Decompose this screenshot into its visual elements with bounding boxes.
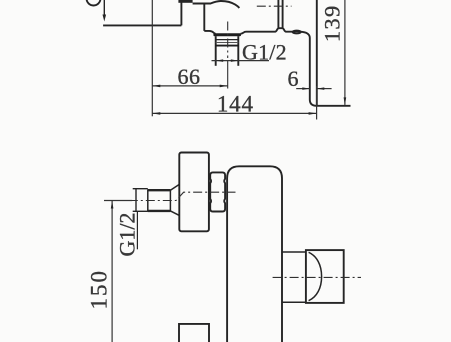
svg-text:G1/2: G1/2 — [115, 213, 140, 257]
svg-text:150: 150 — [87, 269, 112, 310]
svg-text:139: 139 — [319, 4, 344, 42]
svg-text:144: 144 — [217, 91, 254, 116]
svg-text:6: 6 — [287, 66, 299, 91]
svg-text:66: 66 — [178, 64, 201, 89]
svg-text:G1/2: G1/2 — [242, 39, 287, 64]
